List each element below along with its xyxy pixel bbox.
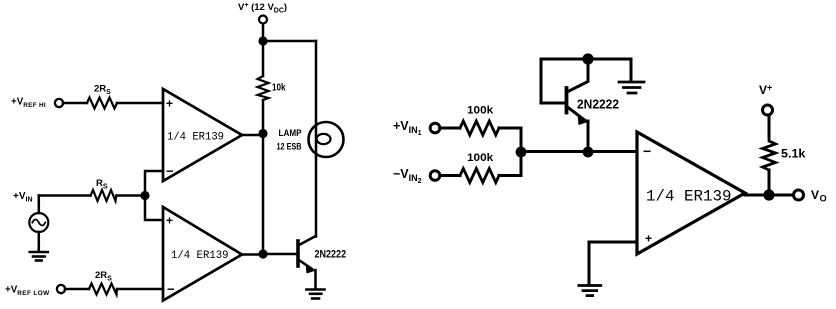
svg-text:10k: 10k [272,83,286,94]
svg-text:1/4 ER139: 1/4 ER139 [167,132,224,144]
svg-text:5.1k: 5.1k [781,147,806,161]
svg-text:−: − [167,282,175,297]
svg-text:1/4 ER139: 1/4 ER139 [646,188,732,206]
svg-text:−: − [643,143,651,159]
svg-text:LAMP: LAMP [279,128,302,138]
svg-text:1/4 ER139: 1/4 ER139 [171,250,229,262]
svg-text:100k: 100k [467,105,494,117]
svg-text:+: + [645,232,652,246]
svg-text:2N2222: 2N2222 [315,249,347,261]
svg-text:100k: 100k [467,152,494,164]
svg-text:+: + [166,214,173,228]
svg-text:2N2222: 2N2222 [577,98,619,112]
svg-text:+: + [166,97,173,111]
svg-text:−: − [166,164,174,179]
svg-text:12 ESB: 12 ESB [277,142,302,152]
